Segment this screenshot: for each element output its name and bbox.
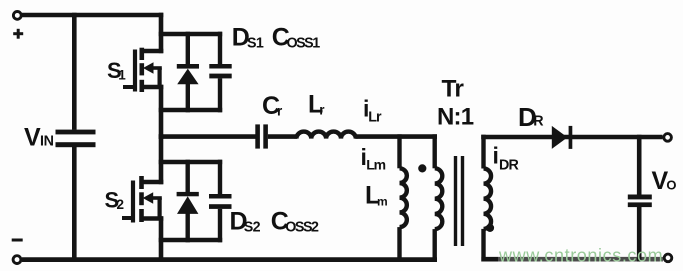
svg-text:R: R <box>533 114 544 130</box>
svg-text:Tr: Tr <box>442 76 465 103</box>
transistor S2 (lower MOSFET) <box>122 176 163 223</box>
svg-text:www.cntronics.com: www.cntronics.com <box>498 246 663 266</box>
wire secondary bottom rail (gray) <box>481 257 498 262</box>
terminal output positive <box>664 134 672 142</box>
svg-text:V: V <box>24 124 41 152</box>
wire top rail from + terminal to half-bridge <box>22 13 164 18</box>
svg-text:OSS1: OSS1 <box>287 35 321 51</box>
svg-text:Lr: Lr <box>368 110 382 126</box>
label Cr <box>262 92 283 120</box>
svg-text:S1: S1 <box>247 35 264 51</box>
wire S1 snubber network top rail <box>159 32 223 37</box>
wire mid node to Cr <box>159 134 256 139</box>
transistor S1 (upper MOSFET) <box>123 48 163 92</box>
transistor S1 arrowhead <box>143 62 154 73</box>
svg-text:OSS2: OSS2 <box>285 220 319 236</box>
svg-text:O: O <box>666 178 676 193</box>
wire Vin branch upper <box>72 13 77 130</box>
label DS1 <box>232 24 264 52</box>
label DR <box>518 102 544 132</box>
transistor S2 arrowhead <box>143 192 154 203</box>
inductor Lm (magnetizing inductance) <box>400 168 407 227</box>
capacitor Cr (resonant cap, series) <box>255 124 268 148</box>
wire mid node down to S2 drain <box>159 134 164 184</box>
plus sign <box>13 29 23 39</box>
svg-text:IN: IN <box>40 134 54 150</box>
wire Vin branch lower <box>72 147 77 262</box>
label COSS1 <box>272 24 320 52</box>
diode DS2 (body diode of S2) <box>177 160 199 243</box>
transformer primary dot <box>418 164 426 172</box>
transformer secondary dot <box>486 224 494 232</box>
svg-text:N:1: N:1 <box>437 104 474 131</box>
wire Lm branch lower <box>397 227 401 262</box>
wire output cap top lead <box>637 135 642 195</box>
wire S2 source down to bottom rail <box>159 216 164 262</box>
inductor Lr (resonant inductor) <box>296 132 355 139</box>
label S2 <box>105 188 125 213</box>
capacitor COSS1 <box>209 32 231 113</box>
wire S1 source rail down to mid node <box>159 85 164 139</box>
wire Cr to Lr <box>268 134 297 139</box>
wire output cap bottom lead <box>637 207 642 262</box>
svg-text:DR: DR <box>499 158 520 174</box>
wire half-bridge drain rail (top) <box>159 13 164 54</box>
wire transformer primary bottom lead <box>433 229 437 262</box>
wire S2 snubber network top rail <box>159 160 223 165</box>
diode DR (output rectifier) <box>552 126 573 149</box>
terminal + (input positive) <box>13 12 21 20</box>
terminal - (input negative) <box>13 256 21 264</box>
svg-text:1: 1 <box>118 68 126 83</box>
label COSS2 <box>271 208 319 236</box>
svg-text:S2: S2 <box>244 220 261 236</box>
wire bottom rail from - terminal to transformer <box>22 257 437 262</box>
label iDR <box>493 143 520 174</box>
label DS2 <box>230 208 261 236</box>
capacitor VIN input cap <box>56 130 96 148</box>
transformer primary winding <box>435 168 443 229</box>
wire secondary bottom rail gray segment <box>498 257 663 262</box>
label Lm <box>365 182 388 210</box>
wire Lm branch upper <box>397 134 401 168</box>
svg-text:Lm: Lm <box>366 157 385 173</box>
wire S2 snubber network bottom rail <box>159 238 223 243</box>
label VIN <box>24 124 54 152</box>
label S1 <box>107 58 126 83</box>
transformer secondary winding <box>484 169 492 229</box>
wire S1 snubber network bottom rail <box>159 108 223 113</box>
svg-text:i: i <box>493 143 499 169</box>
svg-text:2: 2 <box>117 197 125 212</box>
svg-text:m: m <box>377 195 388 209</box>
wire transformer primary top lead <box>433 134 437 168</box>
label VO <box>652 167 677 195</box>
svg-text:r: r <box>277 104 283 119</box>
svg-text:r: r <box>319 103 325 118</box>
label Lr <box>308 91 325 119</box>
minus sign <box>12 239 23 242</box>
capacitor COSS2 <box>209 160 232 243</box>
terminal output negative <box>664 254 672 262</box>
label iLm <box>361 144 386 173</box>
label iLr <box>363 96 382 126</box>
wire transformer secondary bottom lead <box>481 229 485 262</box>
transformer core line 2 <box>461 156 464 246</box>
wire transformer secondary top lead <box>481 135 485 169</box>
diode DS1 (body diode of S1) <box>177 32 199 113</box>
transformer core line 1 <box>454 156 457 246</box>
wire secondary top rail to output terminal <box>481 135 662 140</box>
capacitor Co (output cap) <box>628 195 652 208</box>
wire Lr to transformer primary top <box>355 134 437 139</box>
